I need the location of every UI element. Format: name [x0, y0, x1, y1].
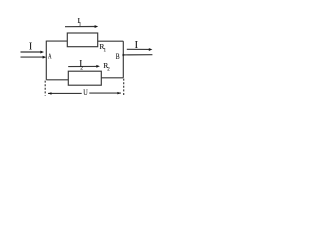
- svg-text:1: 1: [104, 49, 107, 54]
- svg-text:A: A: [48, 54, 52, 61]
- svg-text:2: 2: [107, 67, 110, 72]
- svg-text:I: I: [29, 42, 32, 53]
- svg-text:2: 2: [80, 65, 83, 71]
- svg-text:U: U: [83, 88, 88, 97]
- svg-text:I: I: [135, 40, 139, 51]
- svg-text:B: B: [116, 52, 120, 61]
